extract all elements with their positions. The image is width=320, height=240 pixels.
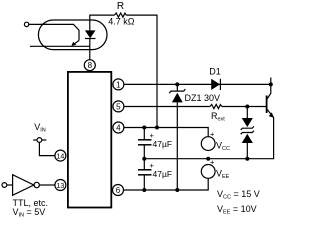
svg-text:13: 13 — [57, 183, 65, 190]
junction R feed on pin 4 rail — [155, 126, 159, 130]
zener DZ1 — [176, 84, 178, 91]
pin 6 — [113, 185, 124, 196]
junction VCC-VEE on mid rail — [206, 157, 210, 161]
svg-text:+: + — [150, 131, 155, 140]
junction collector on pin 1 rail — [269, 82, 273, 86]
svg-text:VIN: VIN — [34, 122, 46, 134]
svg-text:5: 5 — [116, 102, 121, 111]
wire terminal to inverter — [7, 184, 13, 186]
wire pin 1 rail — [124, 83, 271, 85]
pin 8 — [84, 60, 95, 71]
svg-text:Rext: Rext — [211, 111, 225, 123]
source VCC — [201, 137, 215, 151]
wire pin 4 rail to VCC — [124, 128, 208, 137]
junction DZ2 bottom on mid rail — [245, 157, 249, 161]
svg-text:VCC: VCC — [216, 141, 230, 153]
capacitor C2 47uF — [143, 159, 145, 170]
wire R to pin4 rail — [126, 15, 157, 127]
wire pin 6 rail to VEE — [124, 178, 209, 190]
svg-text:VEE = 10V: VEE = 10V — [217, 204, 257, 216]
svg-text:8: 8 — [88, 61, 93, 70]
pin 4 — [113, 122, 124, 133]
wire pin 5 to Rext — [124, 106, 210, 108]
wire inverter to pin 13 — [39, 184, 55, 186]
wire Rext to base — [222, 106, 267, 108]
capacitor C1 47uF — [143, 128, 145, 140]
inverter U2 — [13, 175, 34, 196]
svg-text:+: + — [150, 161, 155, 170]
pin 1 — [113, 79, 124, 90]
svg-text:DZ1 30V: DZ1 30V — [185, 93, 221, 103]
junction DZ1 cathode on pin 1 rail — [175, 82, 179, 86]
svg-text:VCC = 15 V: VCC = 15 V — [217, 189, 260, 201]
svg-text:+: + — [210, 158, 215, 167]
wire mid rail (emitter common) — [144, 117, 273, 158]
svg-text:14: 14 — [57, 154, 65, 161]
svg-text:VEE: VEE — [216, 168, 230, 180]
svg-text:4.7 kΩ: 4.7 kΩ — [108, 17, 135, 27]
terminal VIN — [33, 139, 46, 141]
svg-text:D1: D1 — [209, 67, 221, 77]
svg-text:VIN = 5V: VIN = 5V — [13, 207, 46, 219]
optocoupler package outline — [38, 20, 107, 50]
junction C1 top on pin 4 rail — [142, 126, 146, 130]
junction C2 bottom on pin 6 rail — [142, 188, 146, 192]
LED D (opto emitter) — [85, 30, 96, 38]
pin 5 — [113, 101, 124, 112]
pin 14 — [55, 150, 66, 161]
inverter U2 input terminal — [2, 183, 7, 188]
svg-text:1: 1 — [116, 80, 121, 89]
svg-text:47µF: 47µF — [153, 169, 173, 179]
LED loop top edge — [41, 24, 79, 40]
junction C1-C2 on mid rail — [142, 157, 146, 161]
input anode terminal — [24, 22, 28, 26]
diode D1 — [211, 79, 220, 90]
svg-text:4: 4 — [116, 124, 121, 133]
svg-text:6: 6 — [116, 186, 121, 195]
wire LED cathode to pin 8 — [89, 39, 91, 60]
source VEE — [201, 165, 215, 179]
IC U1 — [68, 72, 111, 208]
svg-text:47µF: 47µF — [153, 139, 173, 149]
back-to-back zeners DZ2 — [246, 107, 248, 119]
transistor Q1 (IGBT input stage) — [266, 96, 268, 114]
cathode stub wire — [30, 45, 90, 47]
svg-text:R: R — [117, 1, 124, 12]
wire VIN to pin 14 — [39, 142, 55, 155]
wire anode terminal to LED loop — [29, 23, 47, 25]
junction DZ1 anode on pin 6 rail — [175, 188, 179, 192]
LED loop arrow — [73, 41, 79, 45]
wire LED anode up to R — [90, 15, 115, 30]
resistor Rext — [210, 104, 222, 108]
junction DZ2 top on gate wire — [245, 105, 249, 109]
resistor R — [115, 13, 127, 17]
pin 13 — [55, 180, 66, 191]
svg-text:+: + — [210, 129, 215, 138]
